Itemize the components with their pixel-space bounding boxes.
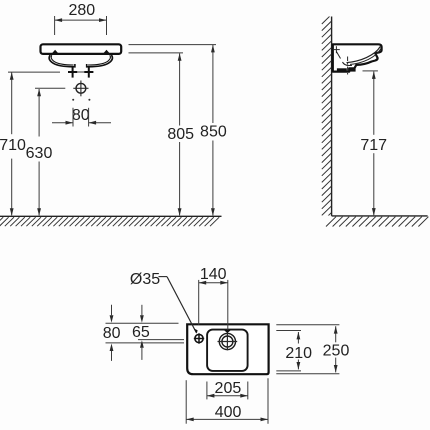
svg-text:205: 205 — [215, 380, 242, 397]
svg-text:250: 250 — [323, 343, 350, 360]
svg-text:210: 210 — [285, 345, 312, 362]
svg-text:65: 65 — [132, 324, 150, 341]
svg-text:805: 805 — [167, 126, 194, 143]
svg-text:140: 140 — [200, 266, 227, 283]
svg-text:630: 630 — [26, 145, 53, 162]
svg-text:80: 80 — [72, 107, 90, 124]
svg-text:710: 710 — [0, 137, 26, 154]
svg-text:80: 80 — [103, 325, 121, 342]
svg-text:Ø35: Ø35 — [130, 271, 160, 288]
svg-text:400: 400 — [215, 404, 242, 421]
svg-text:717: 717 — [360, 137, 387, 154]
svg-text:850: 850 — [200, 124, 227, 141]
svg-text:280: 280 — [68, 2, 95, 19]
